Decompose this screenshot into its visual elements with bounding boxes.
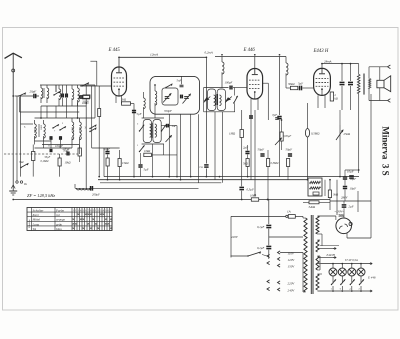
IFT2 coil B bbox=[219, 95, 221, 106]
potentiometer 0.05uF bbox=[280, 132, 283, 141]
wire bbox=[324, 180, 326, 196]
svg-text:E 445: E 445 bbox=[108, 48, 121, 53]
capacitor C out1 bbox=[340, 81, 345, 83]
field coil block WW bbox=[308, 178, 322, 196]
wire bbox=[318, 255, 321, 257]
wire bbox=[151, 154, 177, 156]
wire bbox=[268, 258, 270, 260]
svg-text:1A: 1A bbox=[287, 210, 291, 214]
transformer secondary S1 bbox=[316, 216, 319, 234]
wire bbox=[279, 57, 281, 116]
svg-text:1MΩ: 1MΩ bbox=[229, 132, 236, 136]
transformer secondary S3 bbox=[316, 256, 319, 270]
switch S2 bbox=[53, 94, 54, 95]
transformer secondary S2 bbox=[316, 240, 319, 252]
wire antenna down bbox=[12, 96, 14, 188]
IFT1 coil B bbox=[155, 124, 157, 137]
wire bbox=[98, 86, 100, 109]
svg-text:34kΩ: 34kΩ bbox=[309, 205, 316, 209]
wire grid V2 bbox=[233, 87, 247, 89]
wire bbox=[307, 103, 309, 129]
wire V3 pins bbox=[317, 95, 319, 108]
resistor R11 1M bbox=[240, 130, 243, 138]
wire bbox=[295, 215, 303, 217]
wire bbox=[344, 170, 346, 177]
lamp switch 1 bbox=[331, 284, 332, 285]
lamp 4 bbox=[357, 268, 365, 276]
capacitor 5uF bbox=[140, 153, 142, 164]
svg-text:E 446: E 446 bbox=[243, 48, 256, 53]
resistor 34k bbox=[309, 201, 319, 204]
bus y176 bbox=[104, 176, 359, 178]
svg-text:100pF: 100pF bbox=[225, 81, 233, 85]
svg-text:×: × bbox=[97, 227, 99, 231]
svg-text:E443H: E443H bbox=[326, 253, 336, 257]
capacitor C out2 bbox=[348, 81, 353, 83]
switch S3 bbox=[52, 127, 53, 128]
speaker terminal top bbox=[388, 65, 391, 69]
wire bbox=[34, 141, 36, 145]
wire bbox=[318, 233, 323, 235]
wire RF input bbox=[15, 95, 34, 97]
capacitor 200pF bbox=[90, 186, 92, 191]
switch S7 bottom bbox=[20, 167, 21, 168]
wire bbox=[318, 269, 321, 271]
svg-text:×: × bbox=[107, 222, 109, 226]
capacitor C small bbox=[66, 152, 68, 156]
ground bbox=[12, 188, 14, 191]
svg-text:1nF: 1nF bbox=[172, 124, 177, 128]
variable capacitor C11 bbox=[184, 96, 189, 98]
svg-text:Farbe: Farbe bbox=[55, 208, 65, 212]
coil L9 bbox=[155, 91, 157, 105]
wire bbox=[20, 96, 22, 124]
wire bbox=[339, 110, 341, 125]
switch S4 bbox=[59, 129, 60, 130]
svg-text:0000: 0000 bbox=[71, 126, 74, 132]
svg-text:30kΩ: 30kΩ bbox=[288, 82, 295, 86]
coil L3c bbox=[72, 89, 74, 100]
wire anode V2 bbox=[254, 57, 256, 69]
svg-text:×: × bbox=[75, 222, 77, 226]
wire bbox=[77, 103, 79, 118]
capacitor C12 bbox=[180, 95, 182, 99]
svg-text:50µF: 50µF bbox=[258, 148, 265, 152]
tap 110V bbox=[278, 251, 281, 254]
wire bbox=[222, 112, 224, 183]
capacitor 5uF grid bbox=[299, 86, 301, 91]
svg-text:kΩ: kΩ bbox=[335, 98, 338, 101]
wire bbox=[318, 273, 323, 275]
potentiometer 25k bbox=[336, 130, 343, 140]
svg-text:Minerva 3 S: Minerva 3 S bbox=[381, 126, 391, 175]
resistor R13 0.3M bbox=[267, 159, 270, 167]
svg-text:2µF: 2µF bbox=[349, 205, 354, 209]
svg-text:110V: 110V bbox=[288, 252, 296, 256]
transformer secondary S4 bbox=[316, 274, 319, 290]
speaker terminal bottom bbox=[388, 99, 391, 103]
wire rect output bbox=[346, 233, 348, 238]
svg-text:5µF: 5µF bbox=[144, 168, 149, 172]
svg-text:orange: orange bbox=[56, 218, 66, 222]
svg-text:0000: 0000 bbox=[34, 127, 37, 133]
wire osc verticals bbox=[168, 114, 170, 176]
potentiometer 0.5M bbox=[305, 129, 309, 138]
bus y185 bbox=[100, 182, 221, 184]
capacitor 2uF b bbox=[342, 204, 347, 206]
svg-text:0,3MΩ: 0,3MΩ bbox=[271, 162, 279, 165]
resistor 3k bbox=[328, 190, 331, 198]
resistor R9 15k bbox=[118, 159, 121, 167]
output transformer primary bbox=[357, 74, 360, 93]
mains plug chevrons bbox=[267, 254, 270, 257]
speaker frame bbox=[368, 67, 370, 79]
svg-text:×: × bbox=[92, 217, 94, 221]
IFT2 bracket B bbox=[217, 89, 225, 111]
capacitor 0.1uF a bbox=[266, 224, 271, 226]
IFT1 top rail bbox=[142, 117, 164, 119]
svg-text:10kΩ: 10kΩ bbox=[144, 149, 150, 153]
coil L5 bbox=[44, 124, 46, 138]
svg-text:rot: rot bbox=[56, 213, 60, 217]
svg-text:50µF: 50µF bbox=[286, 148, 293, 152]
bus top-left y85 bbox=[40, 84, 95, 86]
svg-text:7kΩ: 7kΩ bbox=[19, 161, 24, 164]
svg-text:×: × bbox=[90, 213, 92, 217]
core L1L2 bbox=[43, 88, 45, 98]
capacitor bbox=[277, 116, 281, 118]
svg-text:×: × bbox=[72, 227, 74, 231]
wire grid V1 bbox=[80, 85, 112, 87]
svg-text:×: × bbox=[105, 217, 107, 221]
resistor R6 2k bbox=[122, 102, 131, 105]
capacitor 10uF b bbox=[343, 186, 347, 188]
heater bus top bbox=[318, 263, 370, 265]
svg-text:E 446: E 446 bbox=[367, 276, 376, 280]
switch S5 grid bbox=[81, 85, 82, 86]
resistor R10 10k bbox=[144, 153, 152, 156]
capacitor C8 50uF bbox=[105, 151, 109, 153]
wire bbox=[303, 217, 306, 219]
bus y190.5 bbox=[75, 187, 199, 189]
svg-text:×: × bbox=[110, 217, 112, 221]
svg-text:10kΩ: 10kΩ bbox=[65, 162, 71, 165]
svg-text:×: × bbox=[95, 222, 97, 226]
capacitor 0.5uF bbox=[239, 186, 244, 188]
core L4L5 bbox=[38, 124, 40, 137]
svg-text:×: × bbox=[82, 217, 84, 221]
svg-text:Mittel: Mittel bbox=[32, 218, 41, 222]
wire bbox=[268, 229, 270, 246]
IFT2 bottom rail bbox=[204, 111, 235, 113]
svg-text:15kΩ: 15kΩ bbox=[122, 161, 129, 165]
variable cap arrow bbox=[204, 97, 210, 101]
bus y144.5 bbox=[42, 144, 79, 146]
wire bbox=[152, 144, 154, 177]
wire bbox=[35, 140, 52, 142]
IFT2 coil A bbox=[214, 95, 216, 106]
tap 150V bbox=[278, 264, 281, 267]
wire bbox=[92, 147, 120, 149]
bus y180 bbox=[98, 179, 308, 181]
wire bbox=[85, 107, 87, 188]
wire bbox=[55, 85, 57, 92]
resistor R14 bbox=[287, 159, 290, 167]
switch S4b bbox=[89, 128, 90, 129]
resistor R3 0.1M bbox=[32, 152, 35, 161]
svg-text:12mA: 12mA bbox=[150, 53, 159, 57]
coil L7 bbox=[80, 122, 82, 140]
junction dots bbox=[118, 56, 120, 58]
coil L13 bbox=[286, 63, 288, 75]
wire bbox=[230, 216, 232, 257]
wire bbox=[281, 120, 283, 132]
fuse line bbox=[231, 215, 286, 217]
variable cap arrow bbox=[225, 97, 231, 101]
switch S6 bbox=[165, 87, 166, 88]
IFT1 coil A bbox=[150, 124, 152, 137]
capacitor C9 5nF bbox=[180, 84, 184, 86]
svg-text:506: 506 bbox=[339, 214, 345, 218]
coil L6 bbox=[72, 122, 74, 140]
capacitor 50uF b bbox=[288, 153, 292, 155]
wire bbox=[205, 57, 207, 163]
wire bbox=[307, 137, 309, 180]
resistor R16 2k bbox=[330, 92, 333, 101]
capacitor bbox=[249, 115, 253, 117]
svg-text:7µF: 7µF bbox=[272, 113, 277, 117]
switch S9 bbox=[139, 130, 140, 131]
coil L3 bbox=[78, 88, 80, 102]
variable cap arrow bbox=[166, 136, 172, 143]
wire bbox=[16, 96, 18, 181]
svg-text:Schaltkn.: Schaltkn. bbox=[28, 219, 31, 228]
wire cathode V1 bbox=[115, 96, 117, 103]
capacitor 0.1uF b bbox=[266, 245, 271, 247]
wire bbox=[94, 85, 96, 118]
wire bbox=[358, 110, 360, 170]
lamp switch 2 bbox=[340, 284, 341, 285]
wire anode V1 bbox=[118, 57, 120, 67]
wire bbox=[40, 106, 42, 118]
capacitor 1nF bbox=[161, 125, 165, 127]
svg-text:blau: blau bbox=[56, 227, 62, 231]
lamp 2 bbox=[338, 268, 346, 276]
svg-text:5nF: 5nF bbox=[177, 79, 182, 83]
lamp 1 bbox=[329, 268, 337, 276]
svg-text:25kΩ: 25kΩ bbox=[344, 132, 351, 136]
IFT1 bottom rail bbox=[142, 143, 164, 145]
capacitor C3 bbox=[65, 94, 67, 98]
capacitor C5 bbox=[49, 136, 51, 140]
svg-text:grün: grün bbox=[56, 222, 62, 226]
wire bbox=[285, 73, 287, 88]
coil L1 bbox=[41, 88, 43, 99]
coil L4 bbox=[35, 124, 37, 138]
rectifier tube 506 bbox=[336, 218, 352, 234]
svg-text:220V: 220V bbox=[288, 282, 296, 286]
svg-text:3kΩ: 3kΩ bbox=[333, 193, 339, 197]
wire bbox=[19, 97, 21, 112]
wire bbox=[336, 180, 338, 215]
rail A 12mA bbox=[119, 56, 206, 58]
IFT1 core bbox=[151, 123, 153, 138]
resistor R5 bbox=[83, 96, 90, 99]
resistor R1 20000 bbox=[83, 95, 90, 98]
wire bbox=[43, 141, 45, 148]
choke L11 bbox=[222, 62, 224, 74]
wire bbox=[71, 144, 73, 148]
tube V3 E443H bbox=[314, 68, 331, 95]
wire bbox=[268, 250, 270, 258]
capacitor C4 100pF bbox=[59, 136, 61, 140]
svg-text:50µF: 50µF bbox=[104, 147, 111, 151]
svg-text:E443 H: E443 H bbox=[313, 49, 329, 54]
coil L2 bbox=[47, 88, 49, 99]
wire bbox=[90, 60, 96, 62]
capacitor 50uF bbox=[260, 153, 264, 155]
svg-text:×: × bbox=[82, 227, 84, 231]
switch S4c bbox=[89, 131, 90, 132]
output transformer core bbox=[363, 74, 365, 95]
tap 240V bbox=[278, 288, 281, 291]
svg-text:240V: 240V bbox=[288, 289, 296, 293]
coil L10 bbox=[77, 188, 90, 190]
svg-text:×: × bbox=[77, 213, 79, 217]
coil L3b bbox=[59, 89, 61, 100]
bus y118 bbox=[35, 117, 96, 119]
tap 120V bbox=[278, 257, 281, 260]
wire bbox=[268, 200, 270, 225]
lamp 3 bbox=[348, 268, 356, 276]
svg-text:×: × bbox=[90, 227, 92, 231]
switch S11 bbox=[139, 151, 140, 152]
capacitor 16uF bbox=[343, 176, 347, 178]
capacitor Ca bbox=[204, 164, 208, 166]
tap 220V bbox=[278, 281, 281, 284]
svg-text:0,05µF: 0,05µF bbox=[283, 135, 292, 138]
capacitor C100pF bbox=[229, 86, 231, 90]
svg-text:120V: 120V bbox=[288, 258, 296, 262]
svg-text:0000: 0000 bbox=[79, 126, 82, 132]
tuning unit inner box bbox=[162, 88, 178, 105]
mains switch bbox=[231, 255, 249, 257]
capacitor 7uF bbox=[275, 117, 279, 119]
HT rail 280V bbox=[330, 200, 371, 202]
svg-text:5000: 5000 bbox=[40, 124, 43, 130]
bus left block lower bbox=[41, 105, 87, 107]
svg-text:5µF: 5µF bbox=[137, 112, 142, 116]
capacitor C6 bbox=[79, 95, 81, 99]
svg-text:Ta: Ta bbox=[24, 182, 27, 186]
wire bbox=[46, 106, 48, 118]
wire bbox=[321, 246, 323, 263]
TA input jacks bbox=[16, 181, 18, 183]
svg-text:Schalter: Schalter bbox=[33, 208, 45, 212]
svg-text:10µF: 10µF bbox=[350, 187, 357, 191]
band switch table grid bbox=[27, 208, 112, 231]
wire bbox=[36, 95, 39, 97]
svg-text:150V: 150V bbox=[288, 265, 296, 269]
wire bbox=[279, 120, 281, 177]
power transformer core bbox=[310, 215, 312, 294]
wire bbox=[50, 141, 52, 148]
svg-text:×: × bbox=[102, 213, 104, 217]
resistor R7 bbox=[98, 109, 101, 117]
wire bbox=[59, 175, 61, 177]
switch S8 bbox=[233, 102, 234, 103]
fuse 1A bbox=[288, 215, 295, 219]
wire bbox=[254, 110, 256, 195]
svg-text:~130V~: ~130V~ bbox=[335, 209, 345, 213]
oscillator box bbox=[150, 76, 200, 114]
wire bbox=[107, 148, 109, 151]
wire bbox=[303, 291, 306, 293]
tube V2 E446 bbox=[247, 69, 263, 100]
IFT2 core bbox=[215, 94, 217, 105]
tube V1 E445 bbox=[112, 67, 127, 96]
capacitor C7 50uF bbox=[132, 110, 136, 112]
lamp switch 3 bbox=[350, 284, 351, 285]
IFT1 bracket B bbox=[153, 120, 161, 143]
wire bbox=[20, 124, 22, 177]
svg-text:16µF: 16µF bbox=[350, 177, 357, 181]
svg-text:28mA: 28mA bbox=[324, 60, 331, 64]
wire bbox=[131, 103, 135, 105]
wire bbox=[55, 106, 57, 118]
resistor 10k bus bbox=[251, 198, 258, 201]
resistor R8 0.1M bbox=[106, 158, 109, 166]
svg-text:×: × bbox=[87, 222, 89, 226]
output transformer secondary bbox=[369, 79, 371, 89]
capacitor left small bbox=[49, 149, 51, 152]
ground bus y198.5 bbox=[13, 199, 330, 201]
wire bbox=[286, 87, 290, 89]
svg-text:5µF: 5µF bbox=[298, 82, 303, 86]
wire bbox=[318, 215, 336, 217]
svg-text:×: × bbox=[72, 217, 74, 221]
capacitor 10uF bbox=[349, 175, 354, 177]
svg-text:6+4V 0,5A: 6+4V 0,5A bbox=[345, 258, 358, 262]
bus y112 bbox=[20, 111, 80, 113]
switch S10 bbox=[161, 130, 162, 131]
svg-text:50µF: 50µF bbox=[45, 156, 51, 159]
wire bbox=[318, 239, 321, 241]
IFT2 bracket A bbox=[208, 89, 216, 111]
wire bbox=[214, 112, 216, 180]
IFT1 bracket A bbox=[143, 120, 151, 143]
heater E443H tap bbox=[318, 248, 334, 250]
heater bus bottom bbox=[318, 290, 370, 292]
wire bbox=[103, 148, 105, 177]
svg-text:220V: 220V bbox=[231, 235, 239, 239]
svg-text:Lang: Lang bbox=[32, 222, 40, 226]
coil L8 bbox=[144, 98, 146, 109]
resistor R2 bbox=[78, 148, 81, 156]
svg-text:2kΩ: 2kΩ bbox=[121, 98, 127, 102]
svg-text:20pF: 20pF bbox=[30, 90, 37, 94]
variable capacitor C10 bbox=[165, 96, 170, 98]
capacitor C2 bbox=[61, 94, 63, 98]
capacitor 2uF bbox=[245, 151, 249, 153]
rail B bbox=[215, 56, 280, 58]
svg-text:350pF: 350pF bbox=[164, 109, 172, 113]
antenna bbox=[5, 53, 22, 58]
switch S1 antenna bbox=[18, 95, 19, 96]
wire bbox=[62, 98, 64, 106]
svg-text:0,1MΩ: 0,1MΩ bbox=[41, 160, 49, 163]
svg-text:×: × bbox=[110, 227, 112, 231]
